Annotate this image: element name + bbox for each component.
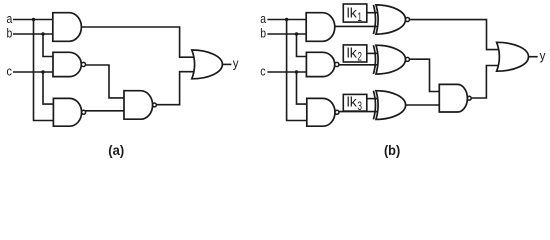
svg-text:b: b (7, 25, 13, 40)
svg-text:a: a (7, 11, 13, 26)
svg-text:y: y (540, 48, 546, 63)
svg-text:lk: lk (347, 5, 357, 20)
svg-text:2: 2 (357, 52, 362, 64)
svg-text:c: c (260, 63, 266, 78)
svg-text:(a): (a) (108, 143, 124, 158)
svg-text:lk: lk (347, 94, 357, 109)
svg-text:3: 3 (357, 101, 362, 113)
svg-text:lk: lk (347, 45, 357, 60)
svg-text:c: c (7, 63, 13, 78)
svg-text:y: y (233, 56, 239, 71)
svg-text:b: b (260, 25, 266, 40)
svg-text:(b): (b) (384, 143, 400, 158)
svg-text:a: a (260, 11, 266, 26)
svg-text:1: 1 (357, 12, 362, 24)
